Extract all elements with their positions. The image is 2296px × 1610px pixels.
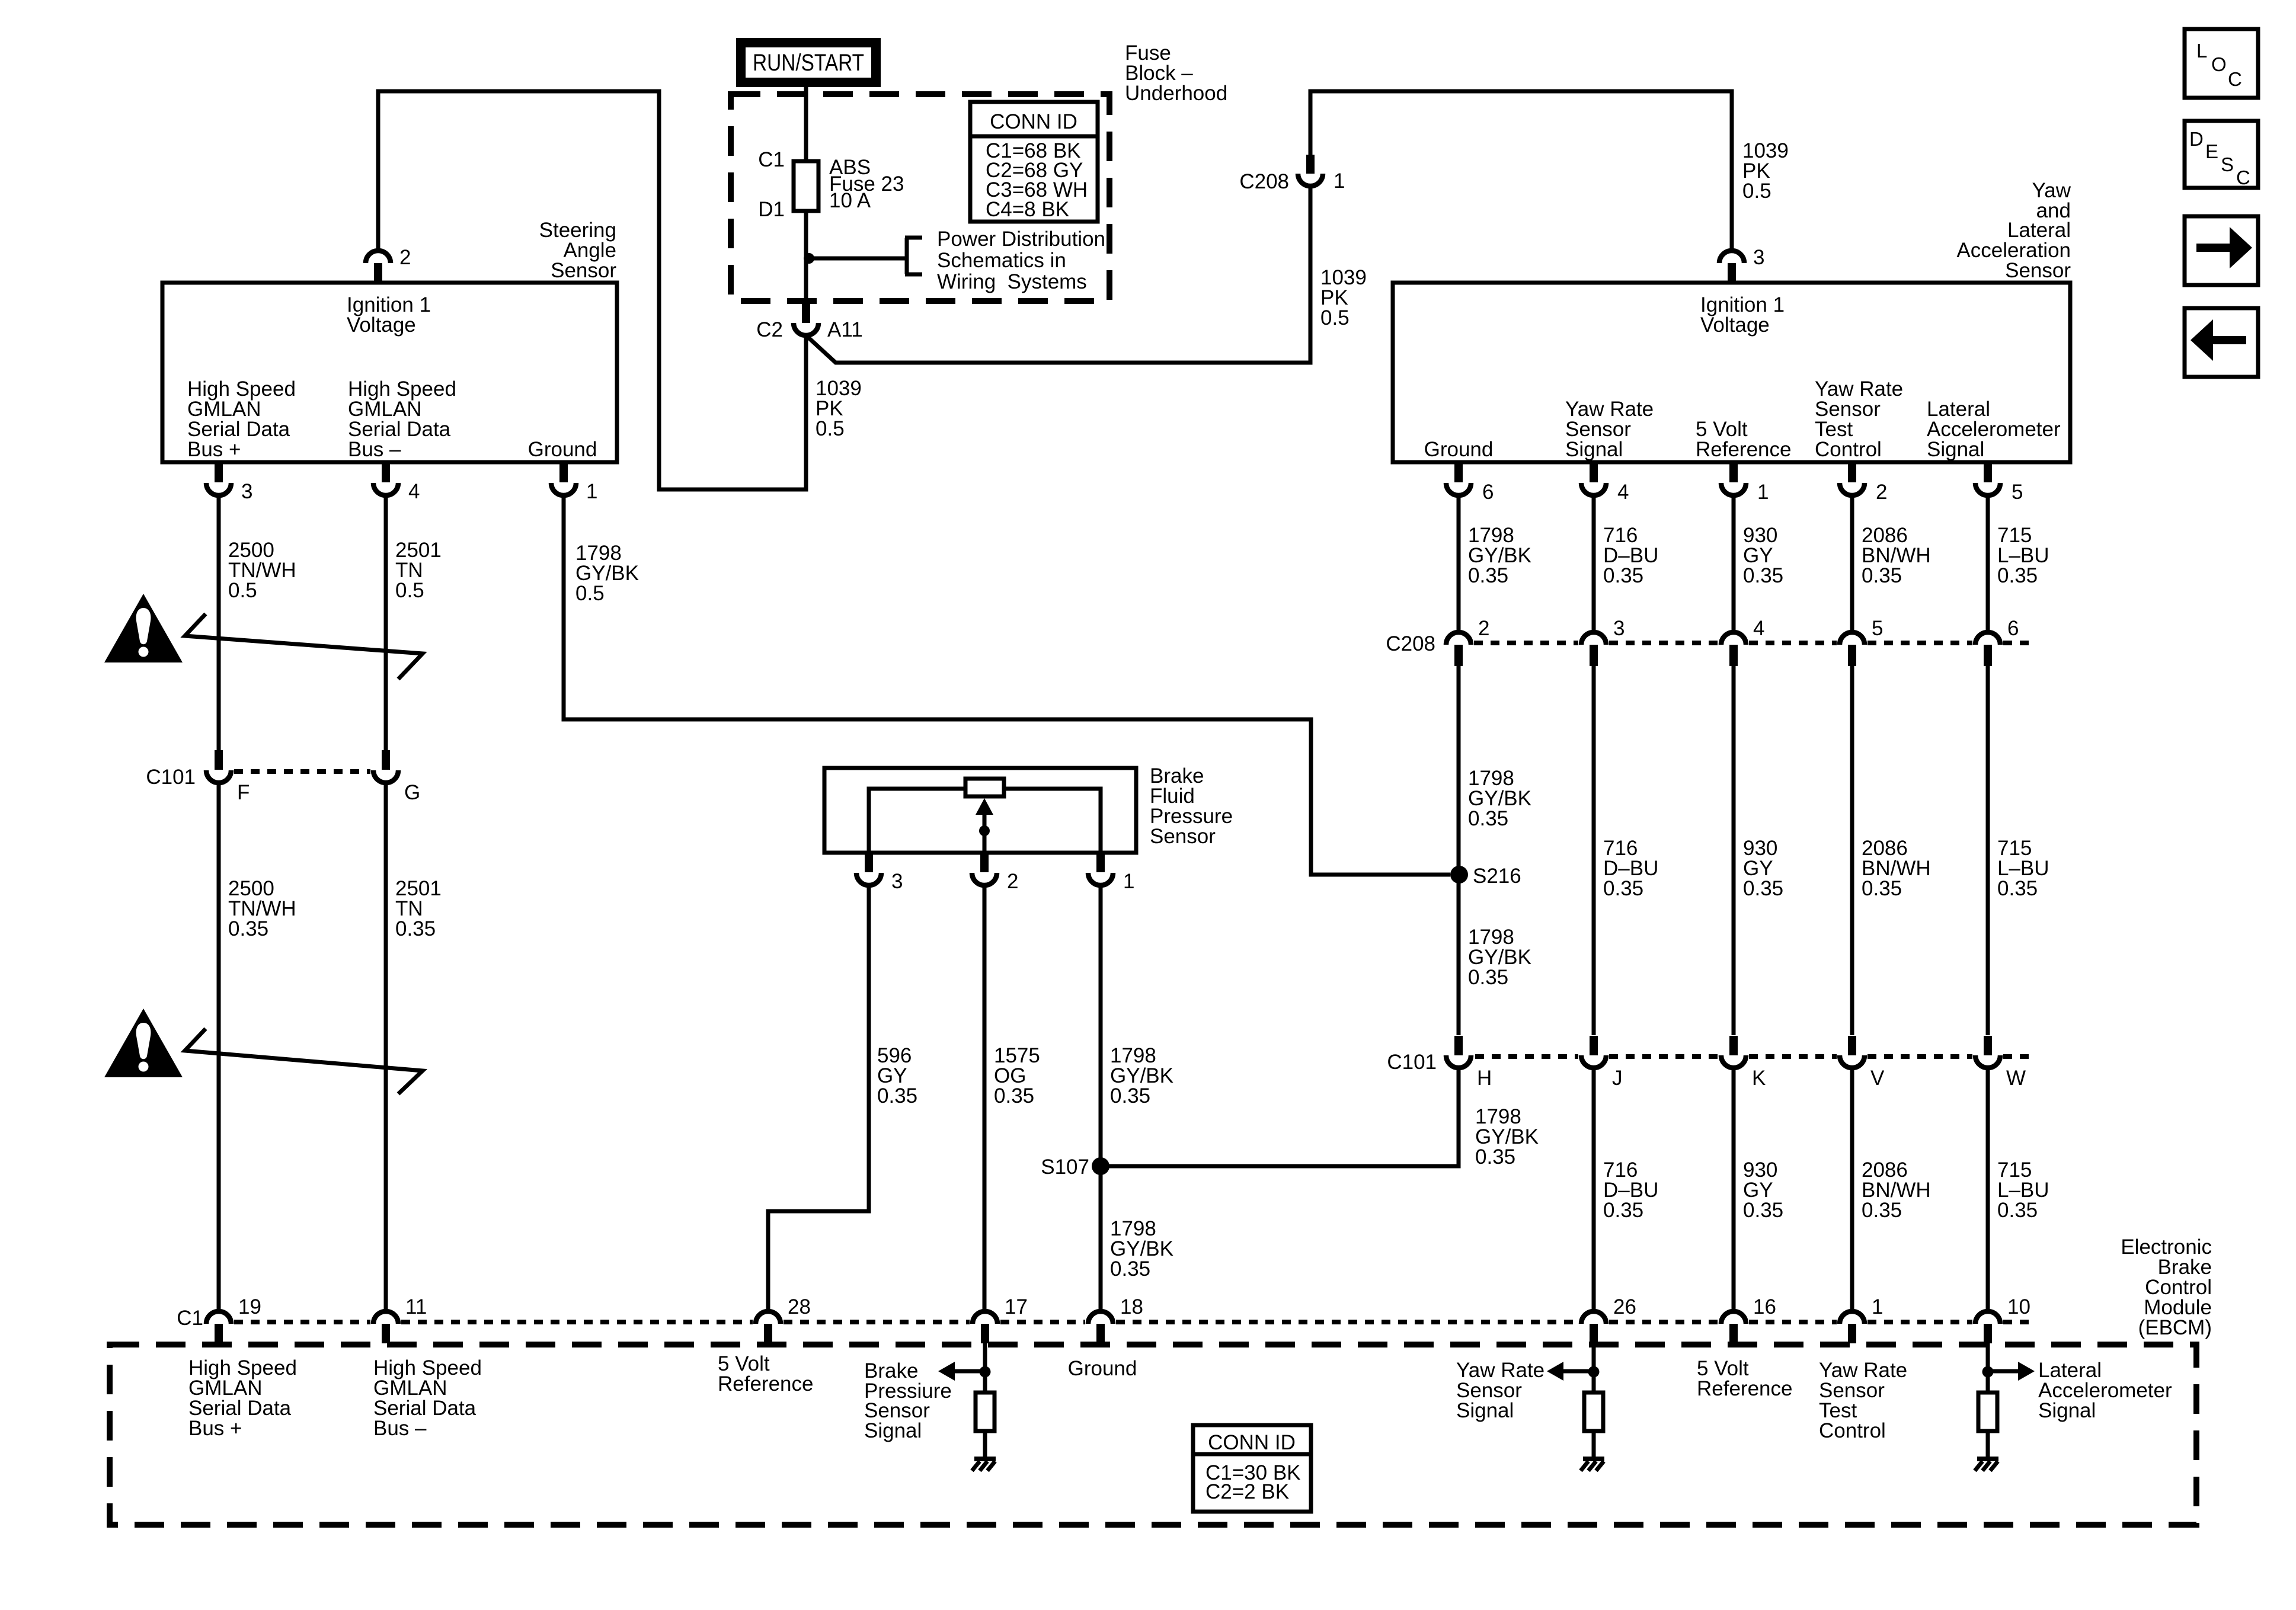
arrow Brake Pressure Sensor Signal	[938, 1362, 985, 1381]
wire C101 to EBCM	[1732, 1068, 1736, 1311]
connector C101 J	[1581, 1036, 1623, 1090]
wire resistor to ground (pin 26)	[1592, 1431, 1596, 1458]
connector EBCM C1 pin 18	[1088, 1295, 1143, 1343]
connector C208 pin 5	[1840, 617, 1883, 666]
wire C101 to EBCM	[1592, 1068, 1596, 1311]
label Brake Fluid Pressure Sensor	[1150, 764, 1233, 848]
wire C101 G down	[384, 783, 388, 1311]
connector EBCM C1 pin 16	[1721, 1295, 1776, 1343]
connector C101 W	[1975, 1036, 2026, 1090]
wiper arrow	[976, 798, 993, 853]
dashed connector line C208	[1474, 641, 2032, 645]
connector yaw pin 4	[1581, 463, 1629, 504]
label Yaw Rate Sensor Signal (EBCM)	[1456, 1359, 1544, 1422]
svg-text:Bus –: Bus –	[373, 1417, 427, 1440]
label Yaw and Lateral Acceleration Sensor	[1956, 179, 2071, 282]
connector BFPS pin 3	[856, 853, 903, 893]
dashed connector line C101 left	[234, 769, 370, 774]
svg-text:Signal: Signal	[1927, 438, 1984, 461]
svg-text:0.35: 0.35	[1603, 1199, 1643, 1222]
wire C101 H to S107	[1101, 1068, 1459, 1166]
wire yaw pin 1 down	[1732, 495, 1736, 632]
branch wire to power distribution note	[809, 238, 922, 274]
box Brake Fluid Pressure Sensor	[824, 768, 1136, 853]
fuse F23 ABS 10A	[794, 161, 818, 211]
label Ground (steering)	[528, 438, 597, 461]
wire label 2086 BN/WH 0.35 (pin2)	[1862, 524, 1931, 587]
wire steering pin3 down	[217, 495, 221, 750]
wire label 2086 BN/WH 0.35 (mid)	[1862, 837, 1931, 900]
svg-text:4: 4	[1617, 481, 1629, 504]
svg-text:0.35: 0.35	[1475, 1145, 1515, 1169]
svg-text:S216: S216	[1473, 865, 1521, 888]
svg-text:0.35: 0.35	[1743, 1199, 1783, 1222]
wire RUN/START to fuse	[804, 87, 808, 303]
splice S216	[1450, 865, 1521, 888]
connector yaw pin 1	[1721, 463, 1769, 504]
svg-text:C208: C208	[1239, 170, 1289, 193]
label C208 (row)	[1386, 632, 1435, 655]
connector yaw pin 2	[1840, 463, 1887, 504]
label C101 (left)	[146, 766, 196, 789]
wire label 596 GY 0.35	[877, 1044, 917, 1108]
icon DESC	[2185, 121, 2258, 188]
svg-text:(EBCM): (EBCM)	[2138, 1316, 2212, 1339]
wire C208 to C101	[1592, 666, 1596, 1035]
wire label 2500 TN/WH 0.5	[228, 539, 296, 602]
wire yaw pin 2 down	[1850, 495, 1854, 632]
svg-text:H: H	[1477, 1067, 1492, 1090]
svg-text:0.5: 0.5	[228, 579, 257, 602]
wire BFPS pin1 to EBCM 18	[1099, 885, 1103, 1311]
svg-text:C101: C101	[146, 766, 196, 789]
svg-text:0.5: 0.5	[816, 417, 845, 440]
label Yaw Rate Sensor Test Control (box)	[1815, 377, 1903, 461]
wire EBCM pin 10 internal	[1986, 1343, 1990, 1393]
svg-text:0.35: 0.35	[1743, 564, 1783, 587]
svg-text:Bus –: Bus –	[348, 438, 401, 461]
svg-text:0.35: 0.35	[1997, 564, 2038, 587]
svg-text:18: 18	[1120, 1295, 1143, 1318]
label High Speed GMLAN Serial Data Bus - (EBCM)	[373, 1356, 482, 1440]
svg-text:2: 2	[1876, 481, 1887, 504]
svg-text:Sensor: Sensor	[551, 259, 616, 282]
label Yaw Rate Sensor Test Control (EBCM 1)	[1819, 1359, 1907, 1442]
svg-text:0.35: 0.35	[1862, 1199, 1902, 1222]
label Ground (EBCM 18)	[1068, 1357, 1137, 1380]
svg-text:0.35: 0.35	[1468, 807, 1508, 830]
svg-text:0.35: 0.35	[1997, 877, 2038, 900]
junction dot below fuse	[804, 253, 814, 264]
svg-text:1: 1	[1757, 481, 1769, 504]
wire C101 F down	[217, 783, 221, 1311]
connector C101 K	[1721, 1036, 1766, 1090]
svg-text:6: 6	[1482, 481, 1494, 504]
wire fuse A11 to steering pin 2	[378, 91, 806, 489]
svg-text:G: G	[404, 781, 420, 804]
svg-text:C208: C208	[1386, 632, 1435, 655]
svg-text:3: 3	[1753, 246, 1764, 269]
svg-text:5: 5	[1872, 617, 1883, 640]
wire label 1798 GY/BK 0.35 (BFPS pin1)	[1110, 1044, 1173, 1108]
icon arrow right	[2185, 216, 2258, 285]
resistor (pin 17)	[976, 1393, 994, 1431]
connector yaw pin 6	[1446, 463, 1494, 504]
wire C208 to C101	[1850, 666, 1854, 1035]
wire label 2501 TN 0.35	[395, 877, 442, 940]
connector EBCM C1 pin 28	[756, 1295, 811, 1343]
svg-text:1: 1	[1872, 1295, 1883, 1318]
svg-text:Signal: Signal	[1456, 1399, 1514, 1422]
svg-text:4: 4	[408, 480, 420, 503]
svg-text:0.35: 0.35	[994, 1084, 1034, 1108]
svg-text:L: L	[2196, 40, 2207, 62]
wire A11 to C208 pin 1	[806, 187, 1310, 363]
svg-text:1: 1	[1123, 870, 1134, 893]
connector C101 G	[373, 750, 420, 804]
svg-text:10 A: 10 A	[829, 189, 871, 212]
svg-text:E: E	[2205, 140, 2218, 162]
wire label 1798 GY/BK 0.5	[575, 542, 639, 605]
svg-text:Signal: Signal	[1565, 438, 1623, 461]
svg-text:CONN ID: CONN ID	[1208, 1431, 1296, 1454]
wire label 715 L-BU 0.35 (mid)	[1997, 837, 2049, 900]
wire yaw pin 6 down	[1457, 495, 1461, 632]
label Yaw Rate Sensor Signal (box)	[1565, 398, 1654, 461]
note Power Distribution Schematics	[937, 228, 1105, 293]
svg-text:Ground: Ground	[1424, 438, 1494, 461]
wire label 715 L-BU 0.35 (pin5)	[1997, 524, 2049, 587]
svg-text:2: 2	[1007, 870, 1018, 893]
svg-text:RUN/START: RUN/START	[753, 50, 864, 76]
resistor (pin 26)	[1584, 1393, 1603, 1431]
svg-text:C101: C101	[1387, 1051, 1437, 1074]
svg-text:W: W	[2006, 1067, 2026, 1090]
wire steering pin1 ground to S216	[564, 495, 1450, 875]
box Yaw and Lateral Acceleration Sensor	[1393, 283, 2070, 462]
potentiometer element	[869, 779, 1101, 853]
svg-text:0.35: 0.35	[1603, 877, 1643, 900]
wire EBCM pin 26 internal	[1592, 1343, 1596, 1393]
wire yaw pin 5 down	[1986, 495, 1990, 632]
svg-text:F: F	[237, 781, 250, 804]
wire EBCM pin 17 internal	[983, 1343, 987, 1393]
svg-text:C: C	[2228, 68, 2242, 90]
leader line triangle 1	[185, 614, 423, 679]
connector C101 H	[1446, 1036, 1492, 1090]
connector C208 pin 6	[1975, 617, 2019, 666]
svg-text:K: K	[1752, 1067, 1766, 1090]
svg-text:Ground: Ground	[528, 438, 597, 461]
arrow Lateral Accelerometer Signal	[1988, 1362, 2035, 1381]
svg-text:0.35: 0.35	[877, 1084, 917, 1108]
wire label 715 L-BU 0.35 (low)	[1997, 1158, 2049, 1222]
CONN ID table (fuse block)	[970, 102, 1098, 222]
svg-text:0.35: 0.35	[395, 917, 436, 940]
svg-text:J: J	[1612, 1067, 1623, 1090]
connector EBCM C1 pin 26	[1581, 1295, 1636, 1343]
svg-text:0.35: 0.35	[228, 917, 268, 940]
wire steering pin4 down	[384, 495, 388, 750]
pin C1 label	[758, 148, 785, 171]
connector C208 pin 4	[1721, 617, 1764, 666]
wire label 1798 GY/BK 0.35 (above S216)	[1468, 767, 1531, 830]
wire label 930 GY 0.35 (low)	[1743, 1158, 1783, 1222]
connector EBCM C1 pin 1	[1840, 1295, 1883, 1343]
label C101 (right)	[1387, 1051, 1437, 1074]
connector EBCM C1 pin 10	[1975, 1295, 2030, 1343]
svg-text:Reference: Reference	[1697, 1377, 1792, 1400]
wire label 930 GY 0.35 (pin1)	[1743, 524, 1783, 587]
connector EBCM C1 pin 19	[206, 1295, 261, 1343]
resistor (pin 10)	[1978, 1393, 1997, 1431]
label Lateral Accelerometer Signal (box)	[1927, 398, 2061, 461]
dashed connector line EBCM row	[234, 1320, 2032, 1324]
svg-text:0.35: 0.35	[1468, 966, 1508, 989]
wire C208 to C101	[1457, 666, 1461, 1035]
svg-text:0.5: 0.5	[1742, 180, 1771, 203]
svg-text:2: 2	[1478, 617, 1489, 640]
svg-text:O: O	[2211, 53, 2227, 75]
wire resistor to ground (pin 10)	[1986, 1431, 1990, 1458]
wire label 1798 GY/BK 0.35 (below S216)	[1468, 926, 1531, 989]
svg-text:0.35: 0.35	[1603, 564, 1643, 587]
connector C2 A11	[756, 303, 862, 341]
connector C101 F	[206, 750, 250, 804]
svg-text:0.5: 0.5	[575, 582, 605, 605]
connector C208 pin 2	[1446, 617, 1489, 666]
svg-text:S107: S107	[1041, 1156, 1089, 1179]
label 5 Volt Reference (box)	[1696, 418, 1791, 461]
wire label 716 D-BU 0.35 (mid)	[1603, 837, 1658, 900]
wire BFPS pin3 to EBCM 28	[768, 885, 869, 1311]
svg-text:C2: C2	[756, 318, 783, 341]
svg-text:Underhood: Underhood	[1125, 82, 1227, 105]
label 5 Volt Reference (EBCM 28)	[718, 1352, 813, 1395]
EBCM dashed box	[110, 1345, 2196, 1525]
svg-text:Sensor: Sensor	[2005, 259, 2071, 282]
svg-text:10: 10	[2007, 1295, 2030, 1318]
svg-text:V: V	[1870, 1067, 1885, 1090]
wire C208 to C101	[1986, 666, 1990, 1035]
junction dot pin 26	[1588, 1366, 1600, 1378]
svg-text:3: 3	[891, 870, 903, 893]
svg-text:4: 4	[1753, 617, 1764, 640]
svg-text:2: 2	[399, 246, 411, 269]
connector C101 V	[1840, 1036, 1885, 1090]
fuse value label	[829, 156, 904, 212]
svg-text:Reference: Reference	[1696, 438, 1791, 461]
dashed connector line C101 right	[1475, 1054, 2032, 1059]
svg-text:Voltage: Voltage	[1700, 313, 1770, 337]
ground (pin 17)	[972, 1459, 996, 1471]
label Ground (yaw)	[1424, 438, 1494, 461]
connector C208 pin 3	[1581, 617, 1625, 666]
junction dot pin 17	[980, 1366, 991, 1378]
label Ignition 1 Voltage (yaw)	[1700, 293, 1785, 337]
label C1 (EBCM row)	[177, 1307, 203, 1330]
splice S107	[1041, 1156, 1109, 1179]
svg-text:S: S	[2221, 153, 2234, 175]
svg-text:C4=8 BK: C4=8 BK	[986, 198, 1069, 221]
svg-text:C1: C1	[758, 148, 785, 171]
svg-text:11: 11	[405, 1295, 427, 1318]
label Fuse Block Underhood	[1125, 41, 1227, 105]
fuse block dashed outline	[731, 94, 1109, 301]
svg-text:3: 3	[241, 480, 252, 503]
svg-text:0.35: 0.35	[1468, 564, 1508, 587]
wire yaw pin 4 down	[1592, 495, 1596, 632]
connector BFPS pin 1	[1088, 853, 1134, 893]
connector EBCM C1 pin 11	[373, 1295, 427, 1343]
svg-text:Signal: Signal	[2038, 1399, 2096, 1422]
connector C208 pin 1	[1239, 155, 1345, 193]
wire label 2500 TN/WH 0.35	[228, 877, 296, 940]
svg-text:0.35: 0.35	[1997, 1199, 2038, 1222]
svg-text:C2=2 BK: C2=2 BK	[1205, 1480, 1289, 1503]
label Lateral Accelerometer Signal (EBCM)	[2038, 1359, 2172, 1422]
ground (pin 26)	[1581, 1459, 1604, 1471]
connector steering pin 1	[551, 463, 597, 503]
svg-text:CONN ID: CONN ID	[990, 110, 1077, 133]
svg-text:5: 5	[2012, 481, 2023, 504]
power feed RUN/START	[736, 38, 881, 87]
wire C101 to EBCM	[1850, 1068, 1854, 1311]
wire C208 pin1 to yaw pin 3	[1310, 91, 1732, 251]
svg-text:Control: Control	[1815, 438, 1882, 461]
label Electronic Brake Control Module (EBCM)	[2121, 1235, 2212, 1339]
arrow Yaw Rate Sensor Signal	[1547, 1362, 1594, 1381]
wire label 1039 PK 0.5 (A11)	[816, 377, 862, 440]
label Steering Angle Sensor	[539, 219, 617, 282]
wire label 716 D-BU 0.35 (pin4)	[1603, 524, 1658, 587]
svg-text:0.5: 0.5	[395, 579, 424, 602]
svg-text:0.5: 0.5	[1320, 306, 1350, 329]
svg-text:0.35: 0.35	[1743, 877, 1783, 900]
connector yaw pin 5	[1975, 463, 2023, 504]
svg-text:26: 26	[1613, 1295, 1636, 1318]
wire label 1798 GY/BK 0.35 (below C101 H)	[1475, 1105, 1539, 1169]
wire BFPS pin2 to EBCM 17	[983, 885, 987, 1311]
wire label 1039 PK 0.5 (below C208-1)	[1320, 266, 1367, 329]
connector BFPS pin 2	[972, 853, 1018, 893]
icon arrow left	[2185, 308, 2258, 377]
svg-text:3: 3	[1613, 617, 1625, 640]
svg-text:0.35: 0.35	[1110, 1084, 1150, 1108]
wire label 1575 OG 0.35	[994, 1044, 1040, 1108]
svg-text:Bus +: Bus +	[188, 1417, 242, 1440]
svg-text:16: 16	[1753, 1295, 1776, 1318]
svg-text:1: 1	[1334, 169, 1345, 193]
svg-text:D1: D1	[758, 198, 785, 221]
connector EBCM C1 pin 17	[973, 1295, 1028, 1343]
svg-text:C: C	[2236, 167, 2250, 188]
svg-text:A11: A11	[827, 318, 863, 341]
svg-text:Schematics in: Schematics in	[937, 249, 1066, 272]
svg-text:Signal: Signal	[864, 1419, 922, 1442]
wire C101 to EBCM	[1986, 1068, 1990, 1311]
wire label 1798 GY/BK 0.35 (pin6)	[1468, 524, 1531, 587]
svg-text:0.35: 0.35	[1862, 564, 1902, 587]
wire label 930 GY 0.35 (mid)	[1743, 837, 1783, 900]
svg-text:Voltage: Voltage	[347, 313, 416, 337]
svg-text:0.35: 0.35	[1862, 877, 1902, 900]
warning triangle 1	[104, 594, 183, 662]
connector steering pin 2	[366, 246, 411, 283]
svg-text:28: 28	[788, 1295, 811, 1318]
label High Speed GMLAN Serial Data Bus + (box)	[187, 377, 296, 461]
svg-text:C1: C1	[177, 1307, 203, 1330]
svg-text:1: 1	[586, 480, 597, 503]
wire label 1039 PK 0.5 (yaw pin3)	[1742, 139, 1789, 203]
label Ignition 1 Voltage (steering)	[347, 293, 431, 337]
svg-text:Sensor: Sensor	[1150, 825, 1216, 848]
wire label 2086 BN/WH 0.35 (low)	[1862, 1158, 1931, 1222]
label Brake Pressure Sensor Signal	[864, 1359, 952, 1442]
wire resistor to ground (pin 17)	[983, 1431, 987, 1458]
wire label 716 D-BU 0.35 (low)	[1603, 1158, 1658, 1222]
connector steering pin 4	[373, 463, 420, 503]
svg-text:Control: Control	[1819, 1419, 1886, 1442]
svg-text:Power Distribution: Power Distribution	[937, 228, 1105, 251]
leader line triangle 2	[185, 1029, 423, 1094]
CONN ID table (EBCM)	[1193, 1425, 1311, 1512]
svg-text:Ground: Ground	[1068, 1357, 1137, 1380]
pin D1 label	[758, 198, 785, 221]
icon LOC	[2185, 29, 2258, 98]
wire C208 to C101	[1732, 666, 1736, 1035]
svg-text:Bus +: Bus +	[187, 438, 241, 461]
svg-text:0.35: 0.35	[1110, 1257, 1150, 1281]
box Steering Angle Sensor	[162, 283, 617, 462]
label 5 Volt Reference (EBCM 16)	[1697, 1357, 1792, 1400]
connector yaw pin 3	[1719, 246, 1764, 283]
svg-text:17: 17	[1005, 1295, 1028, 1318]
wire label 1798 GY/BK 0.35 (below S107)	[1110, 1217, 1173, 1281]
wire label 2501 TN 0.5	[395, 539, 442, 602]
junction dot pin 10	[1982, 1366, 1994, 1378]
warning triangle 2	[104, 1009, 183, 1077]
connector steering pin 3	[206, 463, 252, 503]
svg-text:19: 19	[238, 1295, 261, 1318]
label High Speed GMLAN Serial Data Bus + (EBCM)	[188, 1356, 297, 1440]
ground (pin 10)	[1975, 1459, 1998, 1471]
svg-text:Reference: Reference	[718, 1372, 813, 1395]
svg-text:Wiring Systems: Wiring Systems	[937, 270, 1087, 293]
label High Speed GMLAN Serial Data Bus - (box)	[348, 377, 456, 461]
svg-text:D: D	[2189, 128, 2204, 150]
svg-text:6: 6	[2007, 617, 2019, 640]
